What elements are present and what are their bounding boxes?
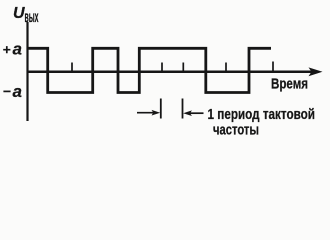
label +a: [3, 40, 22, 59]
time axis arrowhead: [309, 67, 323, 76]
svg-text:a: a: [13, 40, 22, 59]
dimension bar right: [182, 99, 184, 119]
dimension arrow pointing left: [183, 110, 203, 116]
horizontal time axis: [27, 71, 315, 74]
svg-text:Время: Время: [271, 77, 308, 93]
vertical axis: [26, 22, 28, 121]
tick t1 on axis: [71, 63, 73, 73]
svg-text:U: U: [13, 5, 25, 22]
tick t3 on axis: [182, 63, 184, 73]
dimension arrow pointing right: [137, 110, 160, 116]
waveform polyline: [28, 48, 271, 92]
label Uвых: [13, 5, 39, 26]
dimension bar left: [160, 99, 162, 119]
svg-text:1 период тактовой: 1 период тактовой: [208, 106, 316, 123]
tick t5 on axis: [272, 62, 274, 73]
tick t4 on axis: [225, 63, 227, 73]
svg-text:a: a: [13, 82, 22, 101]
label -a: [3, 82, 22, 101]
tick t2 on axis: [161, 63, 163, 73]
svg-text:частоты: частоты: [213, 121, 259, 138]
